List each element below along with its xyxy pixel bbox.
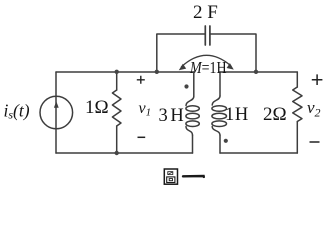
svg-text:M=1H: M=1H xyxy=(189,58,226,77)
inductor L1 3H coil xyxy=(186,97,194,106)
coupling arrowhead right xyxy=(227,63,234,70)
svg-text:2Ω: 2Ω xyxy=(263,104,287,125)
wire: 2-ohm resistor branch bottom lead xyxy=(296,122,298,154)
wire: right loop top (L2 top to R2 top) xyxy=(220,71,297,73)
capacitor C1 2F plates xyxy=(204,26,206,45)
polarity dot L1 xyxy=(184,84,188,88)
svg-text:1H: 1H xyxy=(225,105,248,125)
junction node: cap branch left xyxy=(155,70,159,74)
wire: 2-ohm resistor branch top lead xyxy=(296,72,298,87)
current source I1 arrow xyxy=(54,101,59,108)
junction node: R1 top xyxy=(115,70,119,74)
svg-text:3H: 3H xyxy=(159,106,184,126)
svg-text:is(t): is(t) xyxy=(4,101,30,122)
mutual coupling arrow arc M=1H xyxy=(181,55,230,66)
coupling arrowhead left xyxy=(179,64,186,70)
inductor L1 3H lead top xyxy=(193,72,195,97)
inductor L2 1H lead top xyxy=(219,72,221,96)
wire: left loop bottom (source bottom to L1 bottom) xyxy=(56,152,193,154)
polarity dot L2 xyxy=(224,139,228,143)
current source I1 circle xyxy=(40,96,73,129)
wire: 1-ohm resistor branch bottom lead xyxy=(116,126,118,153)
label: v1 minus xyxy=(138,136,146,138)
caption: chinese character Tu (figure) xyxy=(164,169,177,184)
resistor R1 1ohm zigzag xyxy=(112,90,121,126)
label: v2 minus xyxy=(310,141,320,143)
wire: left loop top (source top to L1 top) xyxy=(56,71,194,73)
wire: capacitor branch right riser xyxy=(210,34,256,72)
junction node: R1 bottom xyxy=(115,151,119,155)
resistor R2 2ohm zigzag xyxy=(293,87,302,122)
inductor L1 3H lead bottom xyxy=(192,135,194,153)
wire: right loop bottom xyxy=(220,152,297,154)
wire: 1-ohm resistor branch top lead xyxy=(116,72,118,90)
svg-text:1Ω: 1Ω xyxy=(85,97,109,118)
label: v2 plus xyxy=(312,74,323,85)
wire: capacitor branch left riser xyxy=(157,34,205,72)
svg-text:2 F: 2 F xyxy=(193,2,218,23)
caption: chinese character yi (one) xyxy=(183,175,204,178)
inductor L2 1H coil xyxy=(212,96,220,105)
junction node: cap branch right xyxy=(254,70,258,74)
inductor L2 1H lead bottom xyxy=(219,135,221,153)
label: v1 plus xyxy=(137,76,145,84)
wire: current source branch xyxy=(55,72,57,153)
